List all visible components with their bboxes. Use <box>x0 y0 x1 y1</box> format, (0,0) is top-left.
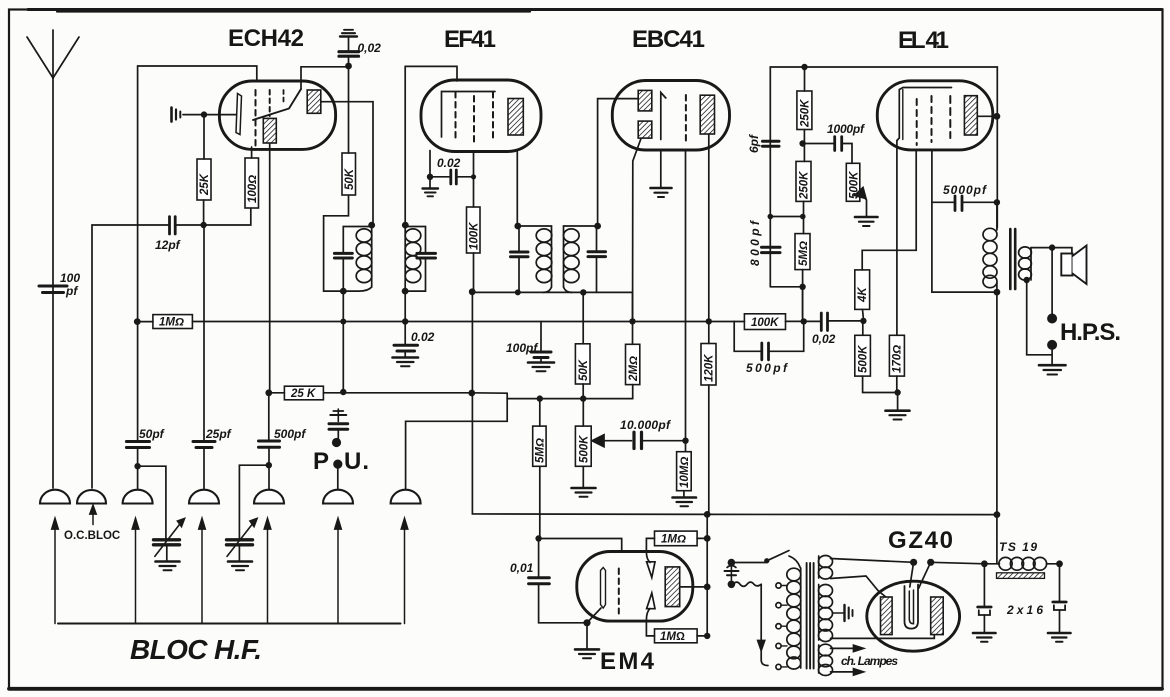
svg-text:pf: pf <box>65 284 78 298</box>
wire top left to ECH42 grid <box>138 66 257 81</box>
svg-text:100pf: 100pf <box>506 341 538 355</box>
OT core <box>1009 229 1012 289</box>
svg-text:5MΩ: 5MΩ <box>798 241 810 266</box>
wire EBC41 grid column <box>685 151 687 441</box>
junction dot <box>368 222 375 229</box>
svg-text:100K: 100K <box>469 222 481 250</box>
EBC41 diode plate 1 (hatched) <box>638 90 652 111</box>
ground EF41 cathode <box>423 187 439 189</box>
resistor R 1M EM4 upper (horizontal) <box>655 531 698 546</box>
junction dot <box>340 288 347 295</box>
wire EF41 screen column <box>473 152 475 207</box>
EM4 grid dashed <box>618 569 620 614</box>
EL41 cathode frame <box>897 88 952 141</box>
resistor R 10M (vertical) <box>677 452 692 491</box>
PT core <box>806 563 808 669</box>
wire 25pf column <box>203 225 205 440</box>
junction dot <box>801 318 807 324</box>
junction dot <box>704 535 711 542</box>
junction dot <box>1056 560 1063 567</box>
junction dot <box>537 395 543 401</box>
wire AVC drop to 1M line <box>632 292 634 321</box>
wire ECH42 anode to IFT1 <box>321 102 373 225</box>
EM4 deflector upper wedge <box>647 562 655 578</box>
junction dot <box>799 140 805 146</box>
wire 100ohm top <box>251 147 253 158</box>
resistor R 4K (vertical) <box>855 270 870 310</box>
junction dot <box>629 318 635 324</box>
EBC41 triode anode (hatched) <box>700 95 714 134</box>
wire 25K bottom lead <box>203 200 205 225</box>
wire 250K chain <box>804 67 806 91</box>
coil IFT2 secondary <box>564 226 598 287</box>
junction dot <box>580 289 586 295</box>
EF41 g3 dashed <box>492 92 494 142</box>
resistor R 1M AVC (horizontal) <box>153 315 193 329</box>
wire B+ vertical right <box>996 202 998 230</box>
ground trimmer 1 <box>156 560 180 563</box>
tube EF41 envelope <box>421 80 541 152</box>
capacitor IFT2 secondary <box>588 250 606 253</box>
GZ40 filament <box>905 585 919 629</box>
trimmer capacitor 1 <box>154 538 180 541</box>
PT secondary coils <box>818 556 820 578</box>
svg-text:GZ40: GZ40 <box>888 527 954 554</box>
coil IFT1 primary <box>371 225 373 287</box>
junction dot <box>728 559 736 567</box>
svg-text:500pf: 500pf <box>274 427 306 441</box>
wire 1M EM4 upper leads <box>697 537 707 539</box>
junction dot <box>994 113 1001 120</box>
ground 2x16 left <box>973 632 996 635</box>
EL41 anode (hatched) <box>964 96 977 135</box>
wire HV to GZ40 anode 2 <box>831 635 935 639</box>
junction dot <box>994 511 1001 518</box>
wire 25K top to ground <box>203 115 205 159</box>
IFT2 secondary branch with cap <box>596 226 598 251</box>
capacitor 500pf padder <box>259 440 280 443</box>
junction dot <box>265 389 272 396</box>
wire 1M EM4 lower leads <box>697 635 707 637</box>
EM4 target anode (hatched) <box>665 567 680 607</box>
wire EM4 cathode <box>587 608 601 623</box>
wire AVC bus y292 <box>472 291 632 293</box>
junction dot <box>1049 244 1055 250</box>
PT primary coil <box>800 568 802 668</box>
svg-text:1MΩ: 1MΩ <box>661 534 686 546</box>
wire EM4 anode <box>680 586 708 588</box>
capacitor 0.02 AGC <box>394 344 418 347</box>
svg-text:5000pf: 5000pf <box>943 183 987 197</box>
mains plug pin 1 <box>731 562 765 564</box>
svg-text:25 K: 25 K <box>290 388 316 400</box>
EM4 deflector lower wedge <box>647 593 655 609</box>
trimmer capacitor 2 <box>227 538 253 541</box>
resistor R 500K pot vol (vertical) <box>575 426 591 466</box>
junction dot <box>332 438 341 447</box>
capacitor 10.000pf <box>632 432 635 448</box>
svg-text:P: P <box>313 448 330 475</box>
ground top 0.02 <box>344 29 353 31</box>
junction dot <box>594 223 601 230</box>
tube ECH42 envelope <box>219 81 335 149</box>
resistor R 50K osc (vertical) <box>342 153 356 195</box>
junction dot <box>345 63 352 70</box>
svg-text:170Ω: 170Ω <box>892 345 904 373</box>
tube EL41 envelope <box>877 81 993 150</box>
capacitor IFT1 secondary <box>417 252 436 255</box>
svg-text:6pf: 6pf <box>747 134 761 153</box>
wire B+ distribution y514.5 <box>707 513 997 515</box>
capacitor 50pf <box>126 440 149 443</box>
svg-text:U.: U. <box>344 448 370 475</box>
ECH42 triode grid slant <box>253 89 301 120</box>
svg-text:ch. Lampes: ch. Lampes <box>841 654 898 668</box>
wire B+ top line <box>770 67 997 287</box>
resistor R 25K screen (horizontal) <box>284 386 323 400</box>
EL41 g2 dashed <box>931 96 933 142</box>
PT HV centre tap ground <box>833 612 845 614</box>
wire hexode grid column x270 <box>269 144 271 393</box>
junction dot <box>515 289 521 295</box>
capacitor 6pf <box>763 140 780 143</box>
capacitor 0,02 top <box>339 50 359 53</box>
IFT2 primary branch with cap <box>518 226 520 251</box>
svg-text:100Ω: 100Ω <box>247 175 259 203</box>
svg-text:10.000pf: 10.000pf <box>620 418 671 432</box>
tube EM4 envelope <box>577 552 693 622</box>
wire volume bus y398.6 <box>507 398 633 400</box>
ECH42 cathode electrode <box>236 94 242 135</box>
junction dot <box>799 284 805 290</box>
svg-text:50K: 50K <box>344 168 356 190</box>
svg-text:50K: 50K <box>578 359 590 381</box>
junction dot <box>910 559 917 566</box>
svg-text:500K: 500K <box>579 435 591 463</box>
EL41 g3 dashed <box>949 96 951 138</box>
svg-text:120K: 120K <box>704 354 716 382</box>
junction dot <box>266 462 272 468</box>
IFT1 primary branch with cap <box>343 227 371 253</box>
wire 10M column <box>685 441 687 452</box>
capacitor 1000pf <box>803 143 834 145</box>
potentiometer arrow 500K tone <box>855 188 867 199</box>
svg-text:EL 41: EL 41 <box>898 27 950 54</box>
mains symbol <box>730 566 732 580</box>
resistor R 50K dec (vertical) <box>575 344 590 384</box>
capacitor 500pf det <box>734 321 760 351</box>
resistor R 25K (vertical) <box>197 159 211 200</box>
coil TS19 <box>999 557 1012 570</box>
junction dot <box>994 199 1000 205</box>
coil IFT2 primary <box>518 226 552 287</box>
EBC41 diode plate 2 (hatched) <box>638 121 652 138</box>
junction dot <box>471 174 476 179</box>
svg-text:1MΩ: 1MΩ <box>159 317 184 329</box>
capacitor 0,02 coupling <box>820 313 823 331</box>
PT primary taps <box>776 583 781 588</box>
wire 25K screen line <box>269 392 285 394</box>
potentiometer arrow 500K vol <box>592 435 604 447</box>
junction dot <box>134 463 140 469</box>
capacitor 2x16 left <box>983 564 985 607</box>
capacitor 25pf <box>193 440 215 443</box>
heater arrows ch lampes <box>831 647 856 649</box>
svg-text:0,01: 0,01 <box>510 561 534 575</box>
svg-text:O.C.BLOC: O.C.BLOC <box>64 530 120 542</box>
GZ40 anode 2 (hatched) <box>931 597 944 635</box>
EM4 cathode electrode <box>601 568 606 609</box>
resistor R 100K screen (vertical) <box>467 207 481 253</box>
ground EBC41 <box>651 187 672 190</box>
svg-text:12pf: 12pf <box>155 238 181 252</box>
wire IFT1 primary bottom drop <box>342 291 344 392</box>
EF41 g1 dashed <box>455 92 457 142</box>
bottom bus BLOC HF <box>58 623 401 625</box>
svg-text:250K: 250K <box>799 171 811 200</box>
wire EL41 screen to OT bottom <box>932 151 997 293</box>
PU input cap and shield <box>337 409 339 422</box>
svg-text:H.P.S.: H.P.S. <box>1060 319 1122 346</box>
resistor R 250K lower (vertical) <box>796 161 811 201</box>
wire EBC41 anode 120K column <box>708 135 710 344</box>
ground tone pot <box>855 216 878 219</box>
wire EL41 cathode column <box>896 141 898 335</box>
resistor R 2M (vertical) <box>626 344 640 384</box>
EF41 anode (hatched) <box>508 99 523 136</box>
ground EL41 grid res <box>886 409 910 412</box>
coil OT primary <box>983 228 997 240</box>
ground 100pf <box>528 361 554 364</box>
wire IFT1 sec top to EF41 grid <box>405 66 457 81</box>
wire 100K det right with 0,02 cap <box>786 320 821 322</box>
capacitor 12pf <box>168 217 171 234</box>
svg-text:50pf: 50pf <box>139 427 165 441</box>
junction dot <box>580 395 586 401</box>
wire speaker top <box>1031 248 1072 254</box>
junction dot <box>402 288 409 295</box>
junction dot <box>514 223 521 230</box>
capacitor 2x16 right <box>1059 564 1061 602</box>
resistor R 5M vol (vertical) <box>533 426 546 466</box>
resistor R 5M (vertical) <box>795 234 810 270</box>
coil OT secondary <box>1030 248 1032 280</box>
junction dot <box>927 559 934 566</box>
junction dot <box>704 584 711 591</box>
junction dot <box>583 619 590 626</box>
wire to trimmer 2 <box>239 465 268 539</box>
capacitor 5000pf <box>932 201 954 203</box>
resistor R 170ohm (vertical) <box>889 335 904 376</box>
resistor R 120K (vertical) <box>701 344 716 386</box>
EF41 g2 dashed <box>473 96 475 145</box>
wire 800pf tie bars <box>770 216 802 218</box>
junction dot <box>469 288 476 295</box>
TS19 core bar <box>997 573 1045 579</box>
wire to trimmer 1 <box>138 466 166 539</box>
bloc arrows <box>54 523 56 624</box>
capacitor 100pf dec <box>531 351 551 354</box>
capacitor 0,02 EF41 grid <box>430 176 450 178</box>
junction dot <box>704 511 711 518</box>
junction dot <box>682 438 688 444</box>
wire EM4 grid from 5M <box>539 539 622 553</box>
resistor R 500K pot tone (vertical) <box>846 163 860 201</box>
ground 2x16 right <box>1048 632 1071 635</box>
junction dot <box>1023 277 1029 283</box>
mains switch <box>765 559 769 563</box>
resistor R 500K grid EL41 (vertical) <box>855 335 871 376</box>
coil IFT1 secondary <box>404 66 406 321</box>
svg-text:100K: 100K <box>751 317 779 329</box>
tube EBC41 envelope <box>612 81 729 151</box>
junction dot <box>340 319 346 325</box>
wire 100pf dec branch <box>540 322 542 352</box>
junction dot <box>340 389 346 395</box>
EBC41 cathode <box>661 93 666 140</box>
svg-text:2MΩ: 2MΩ <box>628 356 640 382</box>
svg-text:1MΩ: 1MΩ <box>660 631 685 643</box>
wire filament to GZ40 <box>831 559 914 563</box>
resistor R 100ohm (vertical) <box>245 158 259 208</box>
antenna <box>52 78 54 488</box>
junction dot <box>728 581 736 589</box>
junction dot <box>768 214 774 220</box>
EL41 g1 dashed <box>916 99 918 145</box>
wire 50K osc column <box>348 66 350 153</box>
speaker HPS <box>1061 254 1072 276</box>
PU lower stem <box>337 467 339 489</box>
svg-text:250K: 250K <box>800 99 812 128</box>
selector arrow <box>758 641 765 651</box>
wire EF41 anode to IFT2 <box>516 152 518 226</box>
ground 10M <box>673 496 697 499</box>
wire 4K grid chain <box>862 151 916 270</box>
capacitor 100pf antenna <box>39 285 67 288</box>
ECH42 grid 2 (dashed) <box>269 90 271 116</box>
ground trimmer 2 <box>228 560 252 563</box>
connector domes <box>40 490 70 504</box>
ECH42 grid (dashed) <box>255 90 257 147</box>
capacitor 0,01 <box>538 539 540 577</box>
wire HPS terminals <box>1051 248 1053 314</box>
wire 12pf line <box>92 225 169 488</box>
svg-text:10MΩ: 10MΩ <box>679 457 691 488</box>
junction dot <box>706 318 712 324</box>
svg-text:25K: 25K <box>199 173 211 196</box>
svg-text:0.02: 0.02 <box>437 156 461 170</box>
junction dot <box>994 289 1001 296</box>
ground 500K vol <box>572 487 596 490</box>
junction dot <box>894 389 900 395</box>
svg-text:EF41: EF41 <box>444 26 497 53</box>
wire triode anode lead <box>301 66 349 68</box>
svg-text:100: 100 <box>60 271 80 285</box>
wire rectifier output line <box>931 562 1000 564</box>
junction dot <box>200 222 206 228</box>
svg-text:500K: 500K <box>858 345 870 373</box>
junction dot <box>800 214 806 220</box>
wire EF41 cathode <box>429 151 431 177</box>
svg-text:EM4: EM4 <box>600 648 655 675</box>
wire 500K vol to ground <box>582 399 584 427</box>
wire EL41 anode <box>977 115 997 117</box>
svg-text:TS 19: TS 19 <box>999 540 1037 554</box>
junction dot <box>427 174 433 180</box>
junction dot <box>201 111 207 117</box>
ground EM4 <box>575 648 599 651</box>
ground HPS <box>1039 364 1066 367</box>
wire 5M vol column <box>539 399 541 427</box>
junction dot <box>860 318 866 324</box>
wire 1M AVC line <box>137 321 153 323</box>
svg-text:ECH42: ECH42 <box>228 25 305 52</box>
svg-text:0.02: 0.02 <box>411 330 435 344</box>
svg-text:5MΩ: 5MΩ <box>535 438 547 463</box>
EF41 cathode <box>442 92 496 138</box>
wire PU switch line <box>406 393 508 489</box>
junction dot <box>402 318 408 324</box>
junction dot <box>402 222 409 229</box>
svg-text:0,02: 0,02 <box>812 332 836 346</box>
ECH42 grid 3 short dashes <box>283 90 285 104</box>
wire 50pf column <box>137 66 139 440</box>
EBC41 grid dashed <box>685 95 687 141</box>
svg-text:25pf: 25pf <box>205 427 232 441</box>
capacitor IFT1 primary <box>334 252 352 255</box>
resistor R 250K upper (vertical) <box>797 91 812 130</box>
ground 0.02 AGC <box>393 356 419 359</box>
wire HV to GZ40 anode 1 <box>831 576 886 597</box>
ECH42 triode anode (hatched) <box>263 118 276 143</box>
GZ40 anode 1 (hatched) <box>881 597 893 635</box>
svg-text:4K: 4K <box>857 287 869 303</box>
svg-text:0,02: 0,02 <box>358 41 382 55</box>
ground ECH42 grid <box>170 108 173 122</box>
junction dot <box>1047 340 1057 350</box>
mains fuse squiggle <box>733 582 761 586</box>
capacitor 800pf <box>762 246 781 249</box>
junction dot <box>333 460 342 469</box>
resistor R 1M EM4 lower (horizontal) <box>655 629 698 643</box>
tube GZ40 envelope <box>867 581 960 651</box>
junction dot <box>704 633 710 639</box>
capacitor IFT2 primary <box>511 251 529 254</box>
resistor R 100K det (horizontal) <box>744 314 785 330</box>
IFT1 secondary branch with cap <box>405 227 425 253</box>
junction dot <box>981 560 988 567</box>
wire EBC41 cathode ground <box>660 151 662 188</box>
svg-text:BLOC H.F.: BLOC H.F. <box>130 634 262 665</box>
junction dot <box>468 390 475 397</box>
junction dot <box>535 535 541 541</box>
wire 0.02 AGC ground branch <box>404 322 406 345</box>
wire IFT2 sec top to EBC41 diode <box>598 99 639 226</box>
junction dot <box>801 64 807 70</box>
wire 500K/170 to ground <box>863 376 898 410</box>
svg-text:1000pf: 1000pf <box>827 122 865 136</box>
junction dot <box>1047 314 1057 324</box>
wire 50K dec column <box>582 322 584 344</box>
wire EBC41 diode2 to 2M column <box>633 139 642 345</box>
svg-text:EBC41: EBC41 <box>632 26 706 53</box>
junction dot <box>134 318 141 325</box>
wire EM4 supply column <box>706 514 708 636</box>
ECH42 hexode anode (hatched) <box>307 90 321 113</box>
